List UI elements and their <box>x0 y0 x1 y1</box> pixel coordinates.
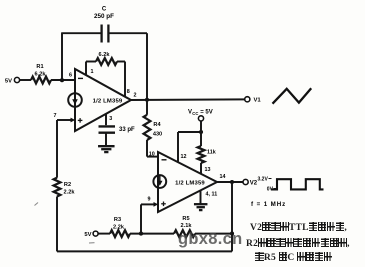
current mirror U2 <box>153 175 166 188</box>
minus sign U2 <box>162 159 167 161</box>
svg-text:2.1k: 2.1k <box>181 223 193 229</box>
svg-text:14: 14 <box>220 174 226 180</box>
svg-text:13: 13 <box>205 167 211 173</box>
terminal Vcc = 5V <box>198 116 203 121</box>
terminal 5V (bottom) <box>98 233 110 235</box>
minus sign U1 <box>78 77 83 79</box>
svg-text:1: 1 <box>91 69 94 75</box>
pin 12 stub to Vcc node <box>177 132 179 163</box>
wire U1 output down to R4 <box>146 100 148 115</box>
terminal V1 <box>245 97 250 102</box>
wire R3 to junction <box>130 233 174 235</box>
svg-text:12: 12 <box>181 154 187 160</box>
capacitor C 250pF <box>100 25 102 43</box>
wire capacitor C to output node of U1 <box>109 32 147 34</box>
stray mark <box>89 242 95 244</box>
node Vcc junction <box>199 130 203 134</box>
svg-text:R2: R2 <box>64 182 71 188</box>
wire V2 node down right rail <box>231 182 233 251</box>
svg-text:3: 3 <box>109 116 112 122</box>
wire junction up to pin 9 <box>140 204 142 233</box>
svg-text:5V: 5V <box>84 232 91 238</box>
op-amp U2 1/2 LM359 <box>158 152 217 212</box>
svg-text:C: C <box>102 7 107 13</box>
annotation line 1: V2 output is TTL compatible <box>250 222 347 234</box>
svg-text:5V: 5V <box>5 78 12 84</box>
ground (under 33pF) <box>98 145 115 147</box>
svg-text:CC: CC <box>192 111 198 116</box>
svg-text:V1: V1 <box>254 97 262 103</box>
ground (U2, pins 4,11) <box>194 203 208 205</box>
svg-text:1/2 LM359: 1/2 LM359 <box>175 181 205 187</box>
wire pin 7 input <box>57 119 72 121</box>
pin 3 stub <box>105 114 107 126</box>
node pin9 branch junction <box>139 232 143 236</box>
svg-text:250 pF: 250 pF <box>94 13 114 20</box>
pin 8 stub and label <box>124 62 126 97</box>
pins 4,11 ground stub <box>200 191 202 204</box>
op-amp U1 1/2 LM359 <box>75 69 131 131</box>
capacitor 33 pF <box>99 125 116 127</box>
terminal V2 <box>243 179 248 184</box>
wire to Vcc terminal <box>200 121 202 132</box>
svg-text:11k: 11k <box>207 150 216 156</box>
svg-text:10: 10 <box>149 152 155 158</box>
watermark gbx8.cn <box>178 230 242 249</box>
triangle wave icon <box>273 88 312 104</box>
plus sign U1 <box>78 119 83 121</box>
resistor R2 2.2k <box>54 178 61 197</box>
terminal 5V (left input) <box>14 77 19 82</box>
wire R1 to inverting input node <box>51 79 75 81</box>
current mirror U1 <box>68 93 82 107</box>
wire 5V input to R1 <box>20 79 31 81</box>
node R5 rail junction <box>230 232 234 236</box>
svg-text:1/2 LM359: 1/2 LM359 <box>93 99 123 105</box>
feedback resistor 6.2k (pin1 to pin8) <box>86 61 96 63</box>
svg-text:R1: R1 <box>36 64 43 70</box>
wire R2 to bottom rail <box>56 197 58 252</box>
pin 1 stub and label <box>85 62 87 75</box>
wire node A up to capacitor C <box>61 33 63 80</box>
resistor R4 430 <box>144 115 151 140</box>
svg-text:2.2k: 2.2k <box>113 224 125 230</box>
resistor R1 6.2k <box>31 77 51 84</box>
node A junction (R1 / C branch) <box>60 78 64 82</box>
annotation line 3: use R5 and C to set frequency <box>255 252 332 264</box>
resistor R3 2.2k <box>110 230 130 237</box>
svg-text:6.2k: 6.2k <box>99 52 111 58</box>
node U1 output junction <box>145 98 149 102</box>
plus sign U2 <box>161 203 166 205</box>
svg-text:R4: R4 <box>153 122 161 128</box>
resistor R5 2.1k <box>174 230 195 237</box>
svg-text:f = 1 MHz: f = 1 MHz <box>251 201 286 208</box>
svg-text:3.2V: 3.2V <box>258 176 269 182</box>
svg-text:7: 7 <box>54 113 57 119</box>
svg-text:R3: R3 <box>114 217 121 223</box>
wire U1 output to V1 terminal <box>131 98 245 101</box>
square wave icon <box>271 179 324 189</box>
svg-text:6: 6 <box>69 73 72 79</box>
wire R5 to right rail <box>195 233 232 235</box>
svg-text:4, 11: 4, 11 <box>206 192 218 198</box>
svg-text:33 pF: 33 pF <box>119 127 135 133</box>
annotation line 2: R2 adjusts triangle symmetry <box>246 238 350 250</box>
resistor 11k <box>200 132 202 146</box>
node U2 output junction <box>230 180 234 184</box>
wire R4 to U2 inverting input (pin 10) <box>146 140 148 157</box>
svg-text:2: 2 <box>134 92 137 98</box>
svg-text:2.2k: 2.2k <box>64 189 76 195</box>
svg-text:430: 430 <box>153 131 162 137</box>
wire 33pF to ground <box>105 133 107 146</box>
wire U2 output to V2 terminal <box>217 181 243 183</box>
bottom feedback rail <box>57 250 232 252</box>
svg-text:R5: R5 <box>182 216 189 222</box>
svg-text:8: 8 <box>127 89 130 95</box>
svg-text:9: 9 <box>148 197 151 203</box>
svg-text:= 5V: = 5V <box>200 110 213 116</box>
wire left branch down to R2 <box>56 120 58 178</box>
pin 13 stub <box>200 163 202 174</box>
svg-text:6.2k: 6.2k <box>35 72 47 78</box>
